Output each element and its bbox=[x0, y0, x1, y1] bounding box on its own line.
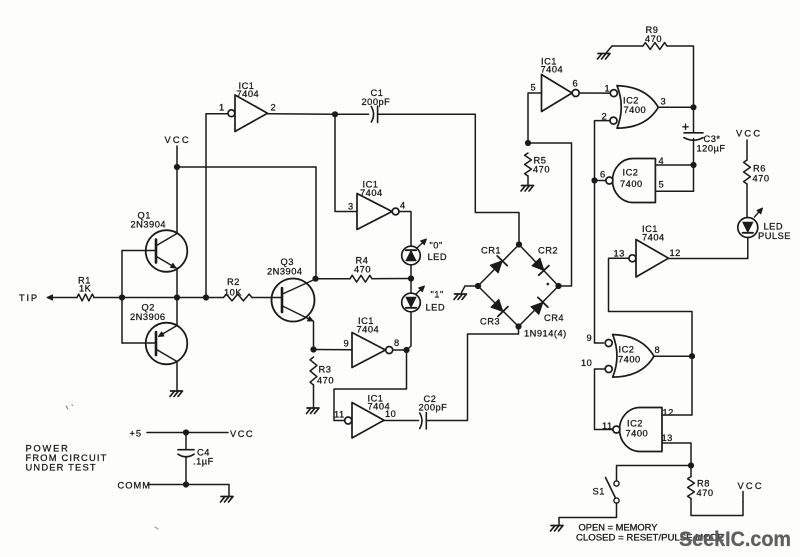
svg-text:470: 470 bbox=[354, 265, 371, 275]
wire bbox=[177, 166, 316, 168]
wire bbox=[478, 245, 559, 327]
transistor Q3 bbox=[267, 257, 316, 322]
wire bbox=[185, 458, 187, 485]
resistor R3 bbox=[310, 357, 334, 386]
wire bbox=[595, 180, 606, 182]
svg-text:CR2: CR2 bbox=[538, 246, 558, 256]
svg-text:7404: 7404 bbox=[237, 89, 260, 99]
diode CR4 bbox=[531, 297, 564, 323]
wire bbox=[410, 265, 412, 279]
wire bbox=[426, 327, 518, 421]
svg-text:8: 8 bbox=[394, 338, 400, 348]
svg-text:7404: 7404 bbox=[360, 188, 383, 198]
svg-text:5: 5 bbox=[659, 180, 665, 190]
wire bbox=[617, 466, 692, 482]
nand-gate IC2 7400 pins 9-10-8 bbox=[581, 333, 660, 377]
svg-text:6: 6 bbox=[573, 79, 579, 89]
watermark bbox=[679, 528, 791, 551]
svg-text:1N914(4): 1N914(4) bbox=[524, 329, 567, 339]
wire bbox=[176, 167, 178, 234]
svg-text:10: 10 bbox=[581, 358, 592, 368]
wire bbox=[399, 212, 411, 247]
wire bbox=[655, 165, 693, 191]
power VCC label bottom right bbox=[738, 481, 764, 502]
wire bbox=[612, 45, 643, 47]
svg-text:470: 470 bbox=[533, 165, 550, 175]
svg-text:.1µF: .1µF bbox=[193, 457, 214, 467]
svg-text:10: 10 bbox=[385, 409, 396, 419]
svg-text:120µF: 120µF bbox=[697, 144, 726, 154]
svg-text:6: 6 bbox=[600, 170, 606, 180]
svg-text:2N3904: 2N3904 bbox=[267, 267, 303, 277]
svg-text:10K: 10K bbox=[224, 288, 242, 298]
wire bbox=[407, 312, 412, 350]
wire bbox=[122, 250, 155, 252]
wire bbox=[335, 114, 357, 211]
wire bbox=[693, 107, 695, 133]
pin 8 bubble bbox=[386, 347, 393, 354]
pin 11 bubble bbox=[345, 417, 352, 424]
pin 9 bubble bbox=[605, 340, 612, 347]
svg-text:470: 470 bbox=[645, 34, 662, 44]
wire bbox=[314, 349, 353, 351]
svg-text:470: 470 bbox=[697, 488, 714, 498]
wire bbox=[658, 106, 693, 108]
svg-text:12: 12 bbox=[663, 408, 674, 418]
svg-text:TIP: TIP bbox=[19, 293, 39, 303]
wire bbox=[252, 297, 282, 299]
resistor R9 bbox=[643, 25, 667, 49]
node junction inverter-input tap bbox=[203, 294, 209, 300]
svg-text:2N3904: 2N3904 bbox=[131, 220, 167, 230]
value label 1N914(4) bbox=[524, 329, 567, 339]
svg-text:5: 5 bbox=[531, 83, 537, 93]
label power from circuit under test bbox=[26, 444, 108, 473]
node bus junction bbox=[591, 177, 597, 183]
capacitor C4 bbox=[178, 448, 214, 467]
transistor Q2 bbox=[130, 303, 187, 365]
svg-text:Q3: Q3 bbox=[281, 257, 294, 267]
svg-text:470: 470 bbox=[317, 376, 334, 386]
capacitor C2 bbox=[419, 394, 448, 429]
op-amp IC1 7404 inverter pins 13-12 bbox=[614, 224, 681, 277]
svg-text:+5: +5 bbox=[130, 429, 143, 439]
pin 1 bubble bbox=[228, 110, 235, 117]
wire bbox=[206, 114, 228, 298]
svg-text:VCC: VCC bbox=[165, 135, 191, 145]
svg-text:8: 8 bbox=[655, 345, 661, 355]
wire bbox=[335, 113, 369, 115]
node bridge right bbox=[555, 283, 561, 289]
wire bbox=[655, 164, 693, 166]
svg-text:R2: R2 bbox=[227, 277, 240, 287]
svg-text:CR1: CR1 bbox=[481, 246, 501, 256]
svg-text:12: 12 bbox=[670, 248, 681, 258]
svg-text:9: 9 bbox=[344, 339, 350, 349]
switch S1 bbox=[593, 478, 620, 504]
power VCC label bbox=[230, 429, 254, 439]
svg-text:7400: 7400 bbox=[626, 429, 649, 439]
svg-text:11: 11 bbox=[602, 421, 613, 431]
svg-text:1K: 1K bbox=[79, 284, 92, 294]
svg-text:"0": "0" bbox=[430, 241, 443, 251]
node +5 terminal bbox=[130, 429, 143, 439]
pin 2 bubble bbox=[610, 117, 617, 124]
LED PULSE bbox=[738, 208, 791, 241]
svg-text:200pF: 200pF bbox=[419, 403, 448, 413]
wire bbox=[148, 484, 229, 486]
node junction bbox=[183, 429, 189, 435]
wire bbox=[315, 167, 317, 279]
svg-text:CR3: CR3 bbox=[480, 317, 500, 327]
svg-text:13: 13 bbox=[614, 249, 625, 259]
node emitter junction bbox=[174, 294, 180, 300]
wire bbox=[693, 139, 695, 166]
svg-text:CR4: CR4 bbox=[544, 313, 564, 323]
svg-text:LED: LED bbox=[764, 222, 784, 232]
wire bbox=[410, 279, 412, 294]
node TIP input arrow bbox=[19, 293, 77, 303]
wire bbox=[228, 485, 230, 496]
svg-text:PULSE: PULSE bbox=[758, 231, 791, 241]
svg-text:4: 4 bbox=[400, 201, 406, 211]
svg-text:2N3906: 2N3906 bbox=[130, 312, 166, 322]
resistor R1 bbox=[77, 276, 94, 301]
wire bbox=[746, 184, 748, 218]
ground bbox=[170, 391, 183, 397]
capacitor C3 bbox=[683, 124, 726, 154]
op-amp IC1 7404 inverter pins 1-2 bbox=[219, 81, 276, 132]
ground bbox=[521, 186, 534, 192]
svg-text:7400: 7400 bbox=[618, 355, 641, 365]
svg-text:OPEN = MEMORY: OPEN = MEMORY bbox=[579, 523, 658, 533]
node C1 junction bbox=[332, 111, 338, 117]
svg-text:3: 3 bbox=[661, 97, 667, 107]
nand-gate IC2 7400 pins 12-13-11 bbox=[602, 408, 674, 452]
wire bbox=[147, 432, 228, 434]
op-amp IC1 7404 inverter pins 11-10 bbox=[334, 394, 396, 439]
node junction bbox=[183, 481, 189, 487]
svg-text:R6: R6 bbox=[753, 164, 766, 174]
wire bbox=[595, 121, 611, 343]
svg-text:LED: LED bbox=[426, 303, 446, 313]
svg-text:R8: R8 bbox=[697, 479, 710, 489]
wire bbox=[122, 342, 155, 344]
svg-text:7400: 7400 bbox=[624, 105, 647, 115]
small speck bbox=[155, 527, 158, 529]
node pin-8 junction bbox=[403, 347, 409, 353]
wire bbox=[176, 298, 178, 326]
ground bbox=[598, 46, 613, 59]
svg-text:200pF: 200pF bbox=[362, 97, 391, 107]
transistor Q1 bbox=[131, 211, 188, 272]
resistor R8 bbox=[688, 477, 714, 499]
pin 6 bubble bbox=[606, 177, 613, 184]
node bridge bottom bbox=[515, 323, 521, 329]
svg-text:7400: 7400 bbox=[620, 179, 643, 189]
wire bbox=[527, 176, 529, 185]
svg-text:UNDER TEST: UNDER TEST bbox=[26, 463, 97, 473]
resistor R2 bbox=[224, 277, 253, 301]
op-amp IC1 7404 inverter pins 9-8 bbox=[344, 316, 400, 368]
node Q3 collector junction bbox=[312, 276, 318, 282]
svg-text:VCC: VCC bbox=[736, 129, 762, 139]
svg-text:11: 11 bbox=[334, 410, 345, 420]
nand-gate IC2 7400 pins 1-2-3 bbox=[602, 84, 667, 129]
svg-text:1: 1 bbox=[605, 84, 611, 94]
svg-text:POWER: POWER bbox=[26, 444, 70, 454]
svg-text:9: 9 bbox=[587, 333, 593, 343]
wire bbox=[121, 251, 123, 344]
wire bbox=[609, 258, 693, 356]
wire bbox=[316, 278, 351, 280]
wire bbox=[595, 369, 613, 430]
resistor R5 bbox=[525, 153, 550, 176]
wire bbox=[579, 92, 610, 94]
wire bbox=[528, 93, 542, 143]
svg-text:VCC: VCC bbox=[230, 429, 254, 439]
wire bbox=[176, 362, 178, 391]
resistor R6 bbox=[744, 160, 770, 184]
op-amp IC1 7404 inverter pins 5-6 bbox=[531, 57, 579, 112]
wire bbox=[559, 503, 617, 525]
svg-text:1: 1 bbox=[219, 103, 225, 113]
small speck bbox=[66, 405, 73, 409]
label switch function bbox=[576, 523, 724, 543]
wire bbox=[378, 114, 519, 244]
node pin-8 junction bbox=[689, 353, 695, 359]
wire bbox=[691, 499, 743, 516]
svg-text:S1: S1 bbox=[593, 487, 605, 497]
wire bbox=[667, 46, 694, 107]
svg-text:IC2: IC2 bbox=[627, 419, 643, 429]
svg-text:7404: 7404 bbox=[541, 65, 564, 75]
wire bbox=[176, 268, 178, 298]
svg-text:7404: 7404 bbox=[357, 325, 380, 335]
pin 6 bubble bbox=[572, 90, 579, 97]
node pin-4 junction bbox=[690, 162, 696, 168]
LED "0" bbox=[402, 239, 447, 265]
svg-text:C3*: C3* bbox=[704, 134, 721, 144]
wire bbox=[528, 143, 572, 286]
node bridge top bbox=[516, 241, 522, 247]
pin 4 bubble bbox=[392, 208, 399, 215]
wire bbox=[268, 113, 336, 116]
node pin-3 junction bbox=[690, 104, 696, 110]
ground bbox=[454, 294, 467, 300]
wire bbox=[372, 278, 411, 280]
wire bbox=[94, 297, 224, 299]
svg-text:7404: 7404 bbox=[642, 233, 665, 243]
wire bbox=[654, 355, 692, 357]
node bridge left bbox=[475, 283, 481, 289]
small speck bbox=[547, 283, 550, 286]
wire bbox=[313, 321, 315, 350]
wire bbox=[669, 238, 748, 259]
resistor R4 bbox=[350, 256, 372, 283]
wire bbox=[662, 356, 692, 415]
svg-text:R3: R3 bbox=[319, 365, 332, 375]
diode CR3 bbox=[480, 299, 508, 326]
pin 1 bubble bbox=[610, 90, 617, 97]
pin 10 bubble bbox=[605, 366, 612, 373]
wire bbox=[185, 433, 187, 450]
wire bbox=[384, 420, 419, 422]
node Q3 emitter junction bbox=[310, 346, 316, 352]
power VCC label top-left bbox=[165, 135, 191, 167]
nand-gate IC2 7400 pins 4-5-6 bbox=[600, 156, 664, 203]
wire bbox=[313, 385, 315, 408]
svg-text:470: 470 bbox=[753, 174, 770, 184]
pin 13 bubble bbox=[629, 255, 636, 262]
node R8 junction bbox=[688, 462, 694, 468]
wire bbox=[662, 443, 691, 477]
ground bbox=[307, 408, 320, 414]
svg-text:Q2: Q2 bbox=[142, 303, 155, 313]
capacitor C1 bbox=[362, 88, 391, 123]
pin 11 bubble bbox=[613, 426, 620, 433]
node COMM terminal bbox=[118, 481, 151, 491]
svg-text:IC2: IC2 bbox=[623, 96, 639, 106]
svg-text:COMM: COMM bbox=[118, 481, 151, 491]
LED "1" bbox=[402, 286, 445, 313]
svg-text:3: 3 bbox=[348, 202, 354, 212]
svg-text:LED: LED bbox=[428, 252, 448, 262]
power VCC label right bbox=[736, 129, 762, 161]
svg-text:13: 13 bbox=[662, 433, 673, 443]
ground bbox=[221, 497, 234, 503]
svg-text:FROM CIRCUIT: FROM CIRCUIT bbox=[26, 453, 108, 463]
wire bbox=[393, 349, 407, 351]
node LED junction bbox=[408, 275, 414, 281]
node R5 junction bbox=[525, 140, 531, 146]
svg-text:SeekIC.com: SeekIC.com bbox=[679, 528, 791, 551]
diode CR2 bbox=[532, 246, 558, 276]
diode CR1 bbox=[481, 246, 507, 273]
svg-text:"1": "1" bbox=[431, 290, 444, 300]
svg-text:VCC: VCC bbox=[738, 481, 764, 491]
node junction at R1/base tie bbox=[119, 294, 125, 300]
wire bbox=[462, 286, 479, 293]
node VCC junction bbox=[174, 164, 180, 170]
svg-text:IC2: IC2 bbox=[619, 345, 635, 355]
op-amp IC1 7404 inverter pins 3-4 bbox=[348, 180, 406, 230]
wire bbox=[334, 350, 407, 421]
svg-text:2: 2 bbox=[271, 103, 277, 113]
ground bbox=[551, 526, 564, 532]
svg-text:IC2: IC2 bbox=[623, 168, 639, 178]
